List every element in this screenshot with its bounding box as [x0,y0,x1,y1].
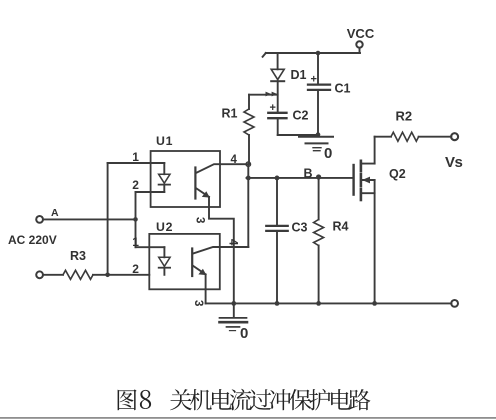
svg-text:VCC: VCC [347,26,375,41]
diode D1 [271,53,284,113]
node Q2 source rail junction [372,301,377,306]
node R3/U1pin1 junction [105,273,110,278]
node C1/C2 ground junction [316,132,321,137]
terminal R3 input [36,271,43,278]
wire R1 top branch [249,94,278,96]
resistor R2 [375,132,452,141]
resistor R3 [43,270,149,279]
svg-text:C3: C3 [292,221,308,235]
svg-text:R4: R4 [333,220,349,234]
wire U1pin2/U2pin1 riser [135,192,137,247]
terminal Vs [451,133,458,140]
svg-text:B: B [304,167,313,181]
caption 图8 关机电流过冲保护电路 [118,389,371,411]
wire U2 pin 4 jog [220,246,249,248]
wire C2 to ground [278,134,318,136]
svg-text:2: 2 [132,262,139,276]
wire U1 pin 1 [108,162,165,164]
node A junction [133,217,138,222]
LED inside U1 [159,163,170,192]
VCC terminal [356,41,362,53]
wire node B bus [247,177,353,179]
resistor R1 [244,95,254,164]
resistor R4 [314,178,324,304]
LED inside U2 [159,247,170,275]
capacitor C1 [308,53,330,135]
svg-text:C2: C2 [293,109,309,123]
node B junction at collector bus [246,176,251,181]
optocoupler U1 [151,151,220,207]
node B junction at C3 [275,176,280,181]
wire U1 pin 3 to ground riser [209,207,234,303]
svg-text:Q2: Q2 [389,167,406,181]
wire VCC rail [263,53,360,57]
node R4 rail junction [316,301,321,306]
node R1/U1pin4 junction [246,162,250,166]
node ground rail junction [231,301,236,306]
svg-text:3: 3 [194,217,206,223]
ground (top, under C1) [299,137,333,162]
wire U1 pin 4 [220,163,248,165]
svg-text:0: 0 [324,145,332,162]
wire Q2 source [374,180,376,303]
terminal A [36,216,43,223]
svg-text:AC 220V: AC 220V [8,233,57,247]
wire U2 pin 1 [136,246,165,248]
node VCC/C1 junction [316,51,321,56]
svg-text:A: A [51,207,59,219]
transistor Q2 (MOSFET) [354,161,375,200]
svg-text:R2: R2 [396,109,413,124]
node C3 rail junction [275,301,280,306]
svg-text:D1: D1 [291,68,307,82]
node B junction at R4 [316,174,321,179]
chevron marks on R1 branch [266,92,278,97]
svg-text:R1: R1 [222,107,238,121]
phototransistor U1 [195,164,220,207]
ground (bottom, under U2) [220,303,249,342]
phototransistor U2 [192,247,220,289]
optocoupler U2 [149,234,220,289]
capacitor C2 [268,102,286,135]
svg-text:2: 2 [132,178,139,192]
bottom page rule [0,417,496,419]
wire bottom rail [206,302,452,304]
svg-text:3: 3 [192,300,204,306]
svg-text:R3: R3 [70,249,86,263]
terminal bottom right [451,300,458,307]
capacitor C3 [266,178,287,304]
wire U1 pin 2 [136,191,165,193]
wire U2 pin 3 [205,289,207,303]
svg-text:U2: U2 [156,220,173,234]
svg-text:C1: C1 [335,82,351,96]
wire collector bus riser [247,164,249,247]
wire Q2 drain [374,137,376,164]
svg-text:0: 0 [240,325,248,342]
wire A to U-pins [43,218,136,220]
svg-text:4: 4 [227,239,239,246]
svg-text:Vs: Vs [445,154,463,171]
wire U1 pin1 riser [107,163,109,275]
svg-text:U1: U1 [156,134,173,148]
